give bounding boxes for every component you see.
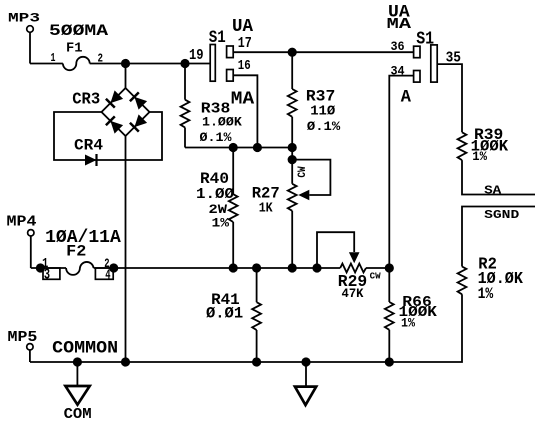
svg-text:1%: 1% <box>472 150 487 164</box>
resistor R37 <box>288 89 297 117</box>
resistor R38 <box>181 100 190 128</box>
value 2W of R40 <box>209 202 228 217</box>
label MP4 <box>7 215 37 231</box>
wire <box>233 51 413 53</box>
svg-text:SA: SA <box>484 184 502 198</box>
pin 35 <box>446 50 461 67</box>
svg-text:47K: 47K <box>342 287 364 301</box>
terminal MP4 <box>28 230 34 268</box>
svg-text:CW: CW <box>297 166 309 177</box>
label 500MA value of F1 <box>49 22 109 40</box>
terminal MP5 <box>27 344 33 362</box>
wire <box>389 76 413 268</box>
junction <box>229 143 238 152</box>
junction <box>36 263 45 272</box>
switch S1 contact pin 36 <box>414 46 420 58</box>
label S1 (right) <box>416 28 434 50</box>
wire <box>388 268 390 302</box>
label MA (right) <box>387 15 413 33</box>
label UA (right) <box>388 4 410 23</box>
switch S1 pole bar <box>210 45 215 82</box>
value 110 of R37 <box>310 104 336 120</box>
wiper of R29 <box>317 232 354 268</box>
label MA <box>231 89 254 109</box>
pin 17 <box>238 36 252 52</box>
bridge diode CR3 top-left <box>106 90 123 107</box>
svg-text:F2: F2 <box>66 242 86 260</box>
value 1% of R40 <box>212 215 230 230</box>
wire <box>90 63 211 65</box>
svg-text:1.ØØK: 1.ØØK <box>202 114 242 129</box>
pin 2 of F1 <box>98 52 104 66</box>
bridge diode CR3 bottom-right <box>130 114 147 131</box>
label F2 <box>66 242 86 260</box>
junction <box>288 48 297 57</box>
value 1% of R66 <box>401 315 415 330</box>
pin 19 <box>189 48 204 64</box>
value 10.0K of R2 <box>478 270 524 288</box>
pin 36 <box>391 39 405 54</box>
label R39 <box>474 126 503 144</box>
wire <box>366 267 389 269</box>
bridge diode CR3 bottom-left <box>106 116 123 133</box>
value 1K of R27 <box>259 200 273 216</box>
switch S1 contact pin 16 <box>227 70 234 82</box>
junction <box>109 263 118 272</box>
value 1.00K of R38 <box>202 114 242 129</box>
svg-text:MP3: MP3 <box>8 10 40 25</box>
wiper arrow of R27 <box>298 190 309 200</box>
wire <box>256 268 258 302</box>
label R66 <box>402 293 432 311</box>
wire <box>233 75 257 147</box>
junction <box>121 357 130 366</box>
svg-text:CR4: CR4 <box>74 137 103 155</box>
label F1 <box>66 41 83 56</box>
label CW of R29 <box>370 272 382 282</box>
label A <box>401 88 412 107</box>
switch S1 pole bar (right) <box>431 45 437 82</box>
fuse F2 <box>66 262 94 275</box>
svg-text:MA: MA <box>231 89 254 109</box>
svg-text:F1: F1 <box>66 41 83 56</box>
label CW of R27 <box>297 166 309 177</box>
wire <box>31 267 66 269</box>
junction <box>229 263 238 272</box>
wire <box>30 294 462 362</box>
wire <box>125 136 127 362</box>
wire <box>30 63 63 65</box>
pin 34 <box>391 63 405 78</box>
svg-text:1%: 1% <box>401 315 415 330</box>
svg-text:5ØØMA: 5ØØMA <box>49 22 109 40</box>
label R40 <box>200 170 229 188</box>
wire <box>185 147 292 149</box>
wire <box>462 160 535 194</box>
net label COMMON <box>52 339 118 359</box>
svg-text:1.ØØ: 1.ØØ <box>196 187 234 203</box>
junction <box>288 143 297 152</box>
value 100K of R39 <box>471 137 509 155</box>
junction <box>385 357 394 366</box>
svg-text:17: 17 <box>238 36 252 52</box>
diode CR4 <box>85 154 97 166</box>
wire <box>291 211 293 268</box>
junction <box>301 357 310 366</box>
svg-text:S1: S1 <box>416 28 434 50</box>
label R27 <box>252 184 280 202</box>
svg-text:Ø.1%: Ø.1% <box>307 119 340 134</box>
junction <box>121 59 130 68</box>
pin 3 of F2 <box>44 266 50 283</box>
wiper loop of R27 <box>292 160 330 195</box>
resistor R2 <box>458 267 467 295</box>
svg-text:CR3: CR3 <box>72 90 100 108</box>
svg-text:1: 1 <box>51 51 56 65</box>
wire <box>94 267 341 269</box>
resistor R66 <box>385 302 394 330</box>
wire <box>184 64 186 100</box>
svg-text:R40: R40 <box>200 170 229 188</box>
switch S1 contact pin 17 <box>227 46 234 58</box>
label R29 <box>338 273 367 291</box>
fuse clip box 3 of F2 <box>43 268 60 279</box>
label MP3 <box>8 10 40 25</box>
wire <box>256 330 258 362</box>
switch S1 contact pin 34 <box>414 71 420 83</box>
resistor R41 <box>252 302 261 330</box>
bridge diode CR3 top-right <box>130 92 147 109</box>
svg-text:A: A <box>401 88 412 107</box>
svg-text:19: 19 <box>189 48 204 64</box>
wire <box>437 64 462 132</box>
svg-text:36: 36 <box>391 39 405 54</box>
wire <box>462 207 535 267</box>
svg-text:S1: S1 <box>209 28 226 48</box>
svg-text:1K: 1K <box>259 200 273 216</box>
svg-text:Ø.Ø1: Ø.Ø1 <box>206 304 243 322</box>
junction <box>252 357 261 366</box>
junction <box>385 263 394 272</box>
value 47K of R29 <box>342 287 364 301</box>
junction <box>252 263 261 272</box>
wire <box>388 330 390 362</box>
svg-text:1%: 1% <box>212 215 230 230</box>
label CR3 <box>72 90 100 108</box>
ground COM <box>65 362 89 405</box>
pin 1 of F1 <box>51 51 56 65</box>
value 1% of R39 <box>472 150 487 164</box>
pin 2 of F2 <box>104 256 109 271</box>
ground <box>295 362 316 405</box>
junction <box>312 263 321 272</box>
terminal MP3 <box>27 26 34 64</box>
svg-text:CW: CW <box>370 272 382 282</box>
svg-text:MP4: MP4 <box>7 215 37 231</box>
junction <box>288 155 297 164</box>
wire <box>291 148 293 184</box>
fuse clip box 4 of F2 <box>95 268 113 279</box>
label UA <box>232 17 253 37</box>
junction <box>73 357 82 366</box>
resistor R27 <box>288 184 297 211</box>
diode bridge CR3 outline <box>102 88 150 136</box>
svg-text:COM: COM <box>64 407 92 423</box>
wire <box>232 148 234 195</box>
value 1% of R2 <box>478 285 494 303</box>
label R37 <box>306 88 335 106</box>
value 0.1% of R37 <box>307 119 340 134</box>
net label SGND <box>484 208 519 222</box>
svg-text:11Ø: 11Ø <box>310 104 336 120</box>
svg-text:16: 16 <box>238 58 251 74</box>
label R2 <box>478 254 497 273</box>
net label SA <box>484 184 502 198</box>
svg-text:1%: 1% <box>478 285 494 303</box>
value 0.1% of R38 <box>200 130 232 145</box>
label S1 <box>209 28 226 48</box>
junction <box>180 59 189 68</box>
label R38 <box>201 100 231 118</box>
pin 16 <box>238 58 251 74</box>
svg-text:UA: UA <box>232 17 253 37</box>
svg-text:MP5: MP5 <box>8 330 38 346</box>
wiper arrow of R29 <box>349 252 360 263</box>
wire <box>291 52 293 89</box>
resistor R29 <box>340 264 366 273</box>
label COM <box>64 407 92 423</box>
junction <box>288 263 297 272</box>
value 1.00 of R40 <box>196 187 234 203</box>
label MP5 <box>8 330 38 346</box>
label CR4 <box>74 137 103 155</box>
wire <box>54 112 162 160</box>
wire <box>291 117 293 148</box>
wire <box>125 64 127 89</box>
svg-text:SGND: SGND <box>484 208 519 222</box>
wire <box>232 222 234 268</box>
resistor R39 <box>458 132 467 160</box>
value 100K of R66 <box>399 303 438 321</box>
svg-text:Ø.1%: Ø.1% <box>200 130 232 145</box>
wire <box>184 128 186 148</box>
junction <box>253 143 262 152</box>
svg-text:MA: MA <box>387 15 413 33</box>
value 0.01 of R41 <box>206 304 243 322</box>
pin 4 of F2 <box>105 267 110 283</box>
pin 1 of F2 <box>42 256 48 272</box>
resistor R40 <box>229 194 238 222</box>
svg-text:COMMON: COMMON <box>52 339 118 359</box>
label 10A/11A value of F2 <box>45 228 121 248</box>
fuse F1 <box>63 57 90 70</box>
label R41 <box>211 291 240 309</box>
